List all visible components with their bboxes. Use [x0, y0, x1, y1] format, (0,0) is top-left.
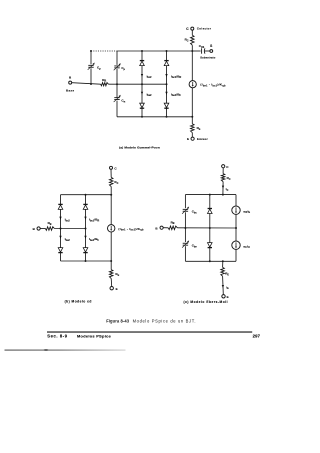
base wire B to RB (fig a): [72, 83, 101, 85]
terminal C (collector, fig a): [191, 27, 194, 30]
right edge wire bottom (fig c): [235, 249, 237, 261]
branch1 wire (fig a): [141, 51, 143, 117]
svg-text:Cbe: Cbe: [192, 244, 198, 249]
current arrow Ibe2 (fig b): [59, 236, 61, 239]
svg-text:297: 297: [253, 334, 261, 339]
svg-text:Figura 8-43Modelo PSpice de un: Figura 8-43Modelo PSpice de un BJT.: [106, 319, 196, 324]
junction dot mid left edge (fig c): [184, 227, 186, 229]
svg-text:RB: RB: [171, 220, 175, 225]
resistor RE (fig c): [221, 267, 225, 276]
svg-text:RE: RE: [115, 272, 119, 277]
svg-text:Cπ: Cπ: [121, 99, 125, 104]
resistor RC (fig b): [109, 177, 113, 186]
wire B to RB (fig c): [163, 227, 168, 229]
main wire source to bottom (fig b): [110, 232, 112, 261]
current arrow Ibc1 (fig a): [165, 74, 167, 77]
svg-text:RE: RE: [225, 272, 229, 277]
dashed wire to extrinsic Cmu branch (fig a): [91, 50, 117, 52]
resistor RB (fig c): [168, 226, 177, 230]
junction dot base / branch1 (fig a): [141, 83, 143, 85]
diode base-collector 2 (fig a): [140, 61, 145, 66]
terminal B (base, fig a): [69, 81, 72, 84]
variable capacitor Cbc (fig c): [182, 207, 189, 214]
svg-text:Emisor: Emisor: [197, 137, 208, 141]
junction dot base / extrinsic branch (fig a): [90, 83, 92, 85]
junction dot mid branch2 (fig b): [85, 228, 87, 230]
svg-text:RE: RE: [197, 126, 201, 131]
current arrow IC (fig c): [222, 186, 224, 189]
top rail (fig b): [61, 194, 112, 196]
left edge wire top (fig c): [184, 195, 186, 209]
svg-text:IC: IC: [226, 187, 229, 192]
diode base-emitter 2 (fig a): [140, 103, 145, 108]
left edge wire bottom (fig c): [184, 246, 186, 261]
svg-text:Ibe2: Ibe2: [65, 237, 71, 242]
terminal C (fig c): [222, 165, 225, 168]
current source aR IE (fig c): [232, 206, 240, 214]
diode base-emitter 2 (fig b): [58, 248, 63, 253]
junction dot collector rail branch2 (fig a): [166, 50, 168, 52]
svg-text:Ibc1/BR: Ibc1/BR: [171, 74, 182, 79]
current arrow Ibc2 (fig a): [141, 74, 143, 77]
variable capacitor Cmu (fig a): [114, 63, 121, 70]
svg-text:(Ibe1 - Ibc1)/Kqb: (Ibe1 - Ibc1)/Kqb: [200, 83, 226, 88]
diode base-collector (fig c): [208, 209, 213, 214]
svg-text:(a) Modelo Gummel-Poon: (a) Modelo Gummel-Poon: [119, 146, 160, 150]
svg-text:(b) Modelo cd: (b) Modelo cd: [65, 300, 92, 304]
junction dot dashed start (fig a): [90, 50, 92, 52]
svg-text:C: C: [226, 165, 229, 169]
svg-text:C: C: [186, 27, 189, 31]
current arrow IE (fig c): [222, 285, 224, 288]
junction dot top branch2 (fig b): [85, 194, 87, 196]
svg-text:Cμ: Cμ: [97, 66, 101, 71]
svg-text:B: B: [155, 226, 158, 230]
terminal B (fig c): [160, 226, 163, 229]
junction dot bottom branch1 (fig a): [141, 116, 143, 118]
base wire RB to node (fig a): [108, 83, 166, 85]
junction dot base / branch2 (fig a): [166, 83, 168, 85]
resistor RB (fig a): [101, 83, 109, 86]
main vertical wire source to bottom rail (fig a): [191, 88, 193, 117]
terminal E (fig b): [110, 287, 113, 290]
branch2 wire (fig a): [166, 51, 168, 117]
terminal C (fig b): [110, 166, 113, 169]
wire RE to E (fig b): [110, 278, 113, 286]
junction dot mid right edge (fig c): [235, 227, 237, 229]
resistor RC (fig c): [221, 174, 225, 182]
terminal B (fig b): [37, 227, 40, 230]
variable capacitor Cpi (fig a): [114, 95, 121, 102]
svg-text:Cμ: Cμ: [121, 66, 125, 71]
current arrow Ibc1 (fig b): [84, 217, 86, 220]
wire RE to E with IE arrow (fig c): [222, 276, 225, 294]
junction dot bottom exit (fig c): [222, 260, 224, 262]
wire Rc to rail with IC arrow (fig c): [222, 182, 224, 195]
resistor RB (fig b): [45, 227, 54, 231]
wire B to RB (fig b): [40, 228, 45, 230]
stray scan line: [0, 0, 1, 1]
current arrow Ibe2 (fig a): [141, 92, 143, 95]
svg-text:αFIC: αFIC: [243, 244, 250, 249]
junction dot top main (fig b): [110, 194, 112, 196]
diode base-collector 1 (fig b): [83, 204, 88, 209]
svg-text:Modelos PSpice: Modelos PSpice: [77, 334, 112, 339]
current source Ice (fig b): [108, 225, 115, 232]
svg-text:(Ibe1 - Ibc1)/Kqb: (Ibe1 - Ibc1)/Kqb: [118, 227, 144, 232]
current arrow Ibe1 (fig a): [165, 92, 167, 95]
resistor RC (fig a): [191, 35, 195, 45]
wire C to Rc (fig c): [222, 168, 224, 174]
extrinsic Cmu branch wire upper (fig a): [90, 51, 92, 64]
bottom emitter rail (fig a): [117, 116, 192, 118]
resistor RE (fig b): [109, 270, 113, 279]
svg-text:Ibc2: Ibc2: [147, 74, 153, 79]
svg-text:Ibe2: Ibe2: [147, 92, 153, 97]
wire bottom rail to RE (fig a): [191, 117, 193, 124]
diode base-emitter 1 (fig b): [83, 248, 88, 253]
substrate wire (fig a): [192, 50, 200, 52]
resistor RE (fig a): [191, 124, 195, 133]
svg-text:IE: IE: [226, 285, 229, 290]
svg-text:RC: RC: [114, 180, 118, 185]
running head rule: [47, 331, 252, 332]
junction dot bottom main (fig b): [110, 260, 112, 262]
junction dot mid middle branch (fig c): [209, 227, 211, 229]
junction dot collector rail / main (fig a): [191, 50, 193, 52]
main wire rail to source (fig b): [110, 195, 112, 225]
wire bottom to RE (fig c): [222, 261, 224, 267]
junction dot top middle branch (fig c): [209, 194, 211, 196]
current arrow Ibc2 (fig b): [59, 217, 61, 220]
C-branch wire middle (fig a): [116, 69, 118, 98]
svg-text:RC: RC: [227, 176, 231, 181]
junction dot bottom branch2 (fig a): [166, 116, 168, 118]
junction dot bottom main (fig a): [191, 116, 193, 118]
svg-text:Ibc2: Ibc2: [65, 218, 71, 223]
branch2 wire (fig b): [85, 195, 87, 261]
diode base-emitter (fig c): [208, 243, 213, 248]
wire bottom to RE (fig b): [110, 261, 112, 270]
svg-text:Ibc1/BR: Ibc1/BR: [89, 218, 100, 223]
svg-text:Ibe1/BF: Ibe1/BF: [89, 237, 100, 242]
junction dot top entry (fig c): [222, 194, 224, 196]
diode base-emitter 1 (fig a): [164, 103, 169, 108]
wire cap to S (fig a): [205, 50, 210, 52]
capacitor CCS (fig a): [202, 48, 205, 53]
svg-text:C: C: [114, 166, 117, 170]
svg-text:RB: RB: [102, 78, 106, 83]
wire C to Rc (fig b): [110, 169, 112, 177]
terminal E (emitter, fig a): [191, 137, 194, 140]
diode base-collector 1 (fig a): [164, 61, 169, 66]
svg-text:Subestrato: Subestrato: [200, 57, 216, 60]
top rail (fig c): [185, 194, 236, 196]
svg-text:S: S: [210, 44, 212, 48]
junction dot bottom middle branch (fig c): [209, 260, 211, 262]
svg-text:E: E: [116, 287, 118, 291]
terminal E (fig c): [222, 295, 225, 298]
C-branch wire top (fig a): [116, 51, 118, 65]
junction dot mid branch1 (fig b): [60, 228, 62, 230]
svg-text:RC: RC: [185, 38, 189, 43]
svg-text:E: E: [187, 137, 189, 141]
current source aF IC (fig c): [232, 241, 240, 249]
diode base-collector 2 (fig b): [58, 204, 63, 209]
svg-text:Base: Base: [66, 89, 75, 93]
svg-text:B: B: [33, 227, 36, 231]
wire RB to box (fig c): [177, 227, 236, 229]
wire RB to node (fig b): [54, 228, 85, 230]
svg-text:αRIE: αRIE: [243, 209, 250, 214]
svg-text:CCS: CCS: [199, 44, 205, 49]
top collector rail (fig a): [117, 50, 192, 52]
branch1 wire (fig b): [60, 195, 62, 261]
junction dot base / C-branch (fig a): [116, 83, 118, 85]
main vertical wire top-rail to source (fig a): [191, 51, 193, 81]
svg-text:B: B: [69, 76, 72, 80]
right edge wire middle (fig c): [235, 214, 237, 241]
current arrow Ibe1 (fig b): [84, 236, 86, 239]
svg-text:Colector: Colector: [197, 27, 212, 31]
svg-text:E: E: [227, 295, 229, 299]
right edge wire top (fig c): [235, 195, 237, 206]
variable capacitor Cbe (fig c): [182, 240, 189, 247]
stray scan blob: [44, 349, 49, 351]
svg-text:(c) Modelo Ebers-Moll: (c) Modelo Ebers-Moll: [183, 300, 228, 304]
bottom rail (fig b): [61, 260, 112, 262]
bottom rail (fig c): [185, 260, 236, 262]
junction dot bottom branch2 (fig b): [85, 260, 87, 262]
svg-text:Cbc: Cbc: [192, 210, 198, 215]
junction dot collector rail branch1 (fig a): [141, 50, 143, 52]
svg-text:RB: RB: [48, 221, 52, 226]
terminal S (substrate, fig a): [210, 50, 213, 53]
left edge wire middle (fig c): [184, 212, 186, 242]
wire RE to E (fig a): [191, 133, 193, 138]
variable capacitor Cmu extrinsic (fig a): [88, 63, 95, 70]
current source Ice (fig a): [189, 81, 196, 88]
wire collector to Rc (fig a): [191, 30, 193, 35]
svg-text:Ibe1/BF: Ibe1/BF: [171, 92, 182, 97]
C-branch wire bottom (fig a): [116, 101, 118, 117]
wire Rc to rail (fig b): [110, 187, 112, 195]
extrinsic Cmu branch wire lower (fig a): [90, 68, 92, 84]
wire Rc to top rail (fig a): [191, 45, 193, 51]
svg-text:Sec. 8-9: Sec. 8-9: [47, 334, 67, 339]
middle branch wire (fig c): [209, 195, 211, 262]
